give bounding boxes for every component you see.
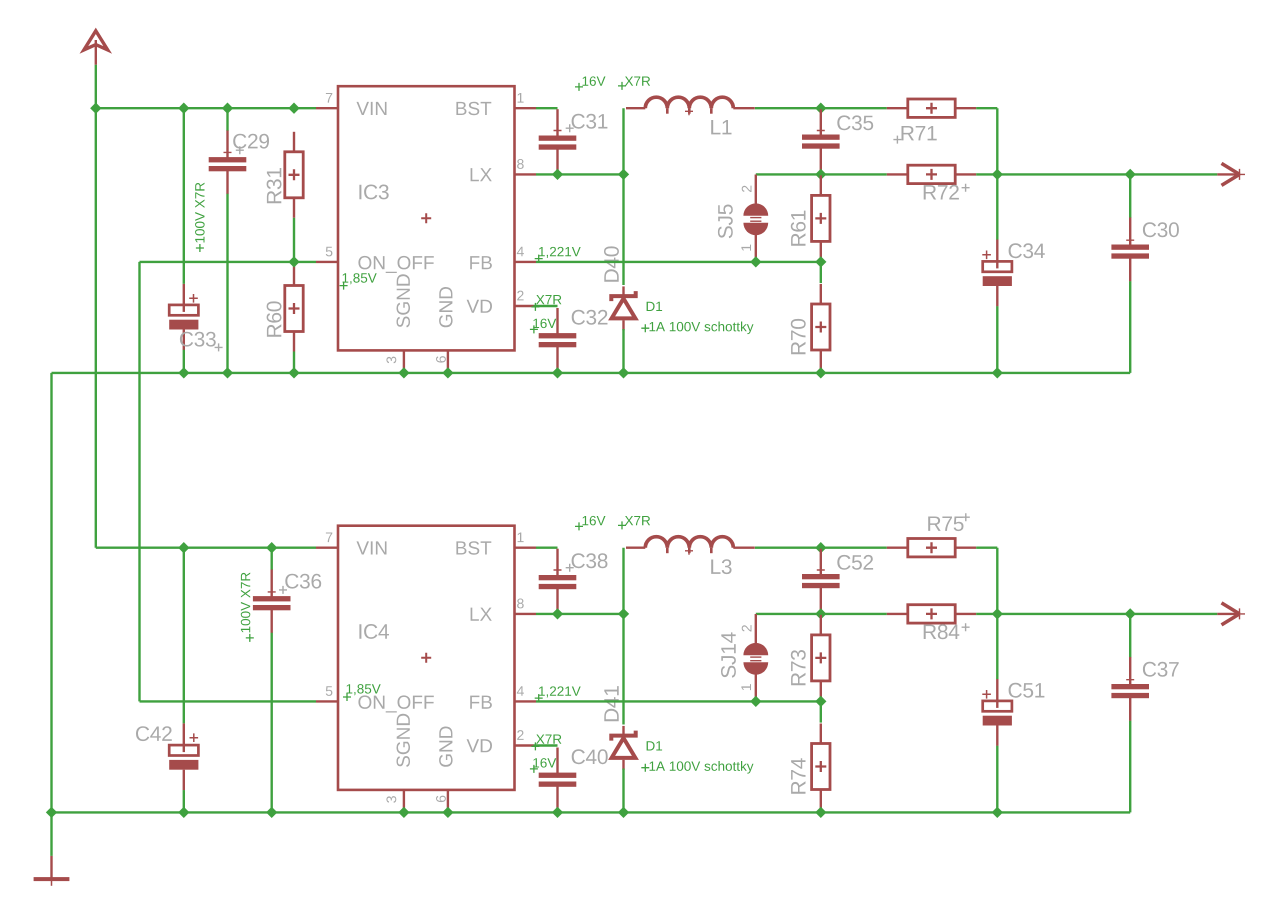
FB value anchor	[535, 255, 543, 263]
junction LX-C31	[552, 169, 563, 180]
net name D41	[604, 686, 618, 721]
resistor R72	[887, 165, 976, 183]
C32 name label	[572, 310, 608, 325]
IC3 name label	[359, 185, 388, 200]
wire ground rail	[52, 372, 1131, 374]
output arrow head	[1222, 163, 1240, 185]
R84 name label	[924, 624, 960, 639]
C32 value X7R	[536, 295, 561, 304]
pin 1 BST stub	[515, 547, 537, 549]
wire R71 out down	[996, 548, 998, 614]
wire output run	[976, 613, 1217, 615]
pin name FB	[470, 696, 492, 709]
wire R31 bottom	[293, 218, 295, 262]
junction out-R71	[992, 608, 1003, 619]
net name D40	[604, 246, 619, 281]
pin name VD	[467, 739, 492, 752]
SJ5 pin 1 label	[741, 245, 751, 251]
wire out to C34	[996, 614, 998, 679]
pin number 7	[326, 93, 332, 103]
C32 value X7R anchor	[531, 303, 539, 311]
pin 4 FB stub	[515, 261, 537, 263]
inductor L3	[626, 537, 755, 554]
junction rail C32	[552, 367, 563, 378]
wire FB	[536, 700, 821, 702]
output arrow stub	[1217, 173, 1239, 175]
capacitor C42	[169, 723, 198, 790]
resistor R74	[812, 724, 830, 810]
pin 3 SGND stub	[403, 790, 405, 813]
C29 value anchor	[196, 244, 204, 252]
C38 origin cross	[554, 566, 562, 574]
wire ON_OFF bottom	[140, 700, 317, 702]
SJ5 name label	[718, 205, 733, 239]
pin 6 GND stub	[447, 790, 449, 813]
diode value 1A 100V schottky	[650, 761, 754, 774]
junction rail pin6	[442, 367, 453, 378]
junction rail pin3	[398, 807, 409, 818]
wire to ground symbol	[50, 812, 52, 856]
junction Lout-C35	[815, 103, 826, 114]
C29 name label	[233, 134, 269, 149]
junction VIN-C29	[222, 103, 233, 114]
wire C35 to R72	[821, 173, 887, 175]
pin name LX	[471, 168, 492, 181]
diode value 1A 100V schottky	[650, 322, 754, 335]
power symbol VCC arrow	[84, 31, 108, 50]
wire C30 to gnd	[1129, 281, 1131, 373]
R84 name anchor	[962, 623, 970, 631]
wire VCC down	[95, 65, 97, 108]
C38 value 16V	[583, 516, 606, 526]
pin number 2	[517, 291, 523, 301]
C33 name label	[180, 332, 216, 347]
R74 name label	[791, 758, 805, 794]
C40 name label	[572, 749, 608, 764]
C29 origin cross	[224, 148, 232, 156]
C38 name anchor cross	[566, 564, 574, 572]
C30 origin cross	[1126, 236, 1134, 244]
junction VCC-VIN	[90, 103, 101, 114]
pin number 6	[436, 356, 446, 363]
ground symbol stem	[50, 856, 52, 878]
wire VIN rail	[96, 107, 316, 109]
wire FB to R70	[820, 701, 822, 722]
pin 3 SGND stub	[403, 350, 405, 373]
junction LX-D40	[618, 608, 629, 619]
ON_OFF value 1,85V	[343, 273, 377, 284]
C51 plus sign	[982, 690, 991, 699]
C35 name label	[837, 115, 873, 130]
C30 name label	[1143, 222, 1179, 237]
C52 name label	[837, 555, 873, 570]
pin name VIN	[357, 541, 387, 554]
C33 name anchor	[215, 343, 223, 351]
pin 2 VD stub	[515, 305, 534, 307]
C32 value 16V	[533, 319, 556, 329]
wire R70 to gnd	[820, 370, 822, 373]
pin name BST	[456, 541, 491, 555]
resistor R71	[887, 99, 976, 117]
C37 origin cross	[1126, 676, 1134, 684]
output arrow head	[1222, 603, 1240, 625]
pin 6 GND stub	[447, 350, 449, 373]
C31 name anchor cross	[566, 124, 574, 132]
resistor R73	[812, 615, 830, 701]
wire C33 to gnd	[183, 350, 185, 373]
capacitor C52	[802, 549, 840, 614]
junction LX-D40	[618, 169, 629, 180]
diode D1 (D41)	[611, 726, 635, 770]
C42 plus sign	[190, 733, 199, 742]
junction rail R74	[815, 807, 826, 818]
pin number 4	[517, 686, 524, 696]
wire C29 vertical top	[226, 108, 228, 131]
FB value anchor	[535, 694, 543, 702]
pin number 6	[436, 796, 446, 803]
C38 name label	[572, 553, 608, 568]
wire R71 out down	[996, 108, 998, 174]
pin number 5	[326, 686, 333, 696]
pin 5 ON_OFF stub	[316, 700, 338, 702]
wire out to C30	[1129, 174, 1131, 218]
solder jumper SJ14	[743, 614, 768, 701]
junction rail C33	[178, 367, 189, 378]
wire LX	[536, 613, 624, 615]
C40 value X7R	[536, 735, 561, 744]
capacitor C36	[253, 570, 291, 634]
resistor R60	[285, 266, 303, 352]
wire ON_OFF left	[140, 261, 317, 263]
pin 8 LX stub	[515, 613, 537, 615]
capacitor C35	[802, 109, 840, 174]
capacitor C32	[539, 308, 577, 373]
pin number 8	[517, 159, 524, 169]
wire C42 vertical top	[183, 548, 185, 724]
pin 5 ON_OFF stub	[316, 261, 338, 263]
pin name GND	[439, 287, 453, 327]
capacitor C33	[169, 284, 198, 350]
L1 name label	[711, 120, 731, 134]
C38 value X7R	[625, 516, 650, 525]
pin number 2	[517, 730, 523, 740]
ON_OFF value 1,85V	[347, 684, 381, 695]
C32 value 16V anchor	[530, 325, 538, 333]
pin name FB	[470, 256, 492, 269]
capacitor C30	[1111, 218, 1149, 282]
wire switch node down	[622, 174, 624, 285]
junction VIN-C33	[178, 103, 189, 114]
C36 value anchor	[246, 634, 254, 642]
R75 name label	[928, 517, 963, 532]
wire FB	[536, 261, 821, 263]
pin name BST	[456, 102, 491, 116]
pin name LX	[471, 608, 492, 621]
wire out to C30	[1129, 614, 1131, 658]
junction FB-R61	[815, 256, 826, 267]
junction out-R71	[992, 169, 1003, 180]
capacitor C38	[539, 549, 577, 614]
capacitor C34	[983, 239, 1012, 306]
wire BST to cap	[536, 547, 558, 549]
C52 origin cross	[817, 566, 825, 574]
junction rail C34	[992, 367, 1003, 378]
VCC pin stem	[95, 40, 97, 65]
ground symbol origin tick	[51, 881, 53, 886]
R60 name label	[267, 301, 282, 336]
wire diode anode to gnd	[622, 329, 624, 373]
junction Lout-C35	[815, 542, 826, 553]
C31 origin cross	[554, 127, 562, 135]
SJ5 pin 2 label	[742, 186, 752, 192]
R71 name anchor	[893, 136, 901, 144]
pin 7 VIN stub	[316, 547, 338, 549]
C38 value 16V anchor	[575, 522, 583, 530]
junction VIN2-C42	[178, 542, 189, 553]
junction VIN-R31	[288, 103, 299, 114]
junction out-C30	[1125, 169, 1136, 180]
C31 name label	[572, 114, 608, 129]
SJ14 pin 1 label	[741, 684, 751, 690]
C51 name label	[1009, 683, 1045, 698]
wire VD to cap	[534, 305, 558, 307]
C29 value 100V X7R	[195, 183, 205, 243]
pin 8 LX stub	[515, 173, 537, 175]
pin 2 VD stub	[515, 744, 534, 746]
junction FB-SJ	[750, 696, 761, 707]
wire C30 to gnd	[1129, 721, 1131, 813]
wire R60 to gnd	[293, 352, 295, 373]
wire BST to cap	[536, 107, 558, 109]
C31 value X7R anchor	[618, 82, 626, 90]
wire C29 to gnd	[226, 194, 228, 373]
resistor R31	[285, 132, 303, 218]
wire out to C34	[996, 174, 998, 239]
pin number 1	[518, 93, 524, 103]
IC4 origin cross	[421, 653, 431, 663]
C31 value 16V	[583, 76, 606, 86]
SJ14 pin 2 label	[742, 625, 752, 631]
junction rail D40	[618, 367, 629, 378]
junction rail pin6	[442, 807, 453, 818]
resistor R75	[887, 539, 976, 557]
resistor R61	[812, 175, 830, 261]
wire ON_OFF vertical link	[138, 262, 140, 702]
capacitor C40	[539, 748, 577, 813]
op-amp-ic IC4 box	[338, 526, 515, 790]
SJ14 name label	[721, 632, 736, 677]
resistor R70	[812, 284, 830, 370]
pin name SGND	[397, 274, 411, 327]
wire R71 out corner	[976, 547, 997, 549]
pin name SGND	[397, 714, 411, 767]
wire C34 to gnd	[996, 306, 998, 373]
IC4 name label	[359, 624, 389, 639]
pin number 3	[386, 796, 396, 803]
C40 value 16V anchor	[530, 765, 538, 773]
pin number 3	[386, 357, 396, 364]
R31 name label	[267, 168, 282, 203]
output arrow stub	[1217, 613, 1239, 615]
R61 name label	[791, 211, 806, 246]
pin name ON_OFF	[358, 256, 433, 273]
pin name ON_OFF	[358, 695, 433, 712]
wire VD to cap	[534, 744, 558, 746]
solder jumper SJ5	[743, 175, 768, 262]
C37 name label	[1143, 662, 1179, 677]
junction rail pin3	[398, 367, 409, 378]
pin 7 VIN stub	[316, 107, 338, 109]
pin number 1	[518, 533, 524, 543]
C34 plus sign	[982, 251, 991, 260]
junction rail R70	[815, 367, 826, 378]
wire C36 vertical top	[271, 548, 273, 570]
wire VIN rail	[96, 547, 316, 549]
FB value 1,221V	[539, 686, 581, 697]
pin number 4	[517, 247, 524, 257]
junction rail R60	[288, 367, 299, 378]
ON_OFF value anchor	[343, 693, 351, 701]
R73 name label	[791, 650, 806, 685]
C31 value X7R	[625, 77, 650, 86]
wire gnd link vertical	[50, 373, 52, 813]
junction FB-R61	[815, 696, 826, 707]
capacitor C29	[209, 131, 247, 195]
C42 name label	[136, 726, 172, 741]
wire C36 to gnd	[271, 633, 273, 813]
junction FB-SJ	[750, 256, 761, 267]
junction LX-C31	[552, 608, 563, 619]
C33 plus sign	[189, 294, 198, 303]
C40 value X7R anchor	[531, 742, 539, 750]
diode value anchor	[641, 764, 649, 772]
wire switch node down	[622, 614, 624, 725]
C36 origin cross	[268, 588, 276, 596]
pin number 8	[517, 599, 524, 609]
wire inductor out	[755, 107, 821, 109]
junction FB-R31R60	[288, 256, 299, 267]
R72 name anchor	[962, 184, 970, 192]
wire R70 to gnd	[820, 810, 822, 813]
diode D1 (D40)	[611, 286, 635, 330]
junction out-C35	[815, 169, 826, 180]
capacitor C31	[539, 109, 577, 174]
R75 name anchor	[962, 513, 970, 521]
diode D1 name	[647, 302, 663, 311]
wire output run	[976, 173, 1217, 175]
wire switch node up	[622, 108, 624, 174]
wire ground rail	[52, 811, 1131, 813]
wire switch node up	[622, 548, 624, 614]
junction rail C29	[222, 367, 233, 378]
diode D1 name	[647, 741, 663, 750]
junction rail C36	[266, 807, 277, 818]
junction rail gndlink	[46, 807, 57, 818]
junction out-C35	[815, 608, 826, 619]
C34 name label	[1009, 243, 1045, 258]
pin name GND	[439, 727, 453, 767]
wire C34 to gnd	[996, 746, 998, 813]
junction rail C42	[178, 807, 189, 818]
C36 name anchor	[279, 586, 287, 594]
diode value anchor	[641, 324, 649, 332]
wire inductor out	[755, 547, 821, 549]
output arrow origin cross	[1234, 608, 1245, 619]
capacitor C37	[1111, 657, 1149, 721]
C38 value X7R anchor	[618, 521, 626, 529]
wire C33 vertical top	[183, 108, 185, 284]
IC3 origin cross	[421, 213, 431, 223]
ground symbol bar	[34, 877, 70, 881]
C29 name anchor	[236, 146, 244, 154]
L3 name label	[711, 559, 731, 574]
wire SJ to C35 bottom	[756, 613, 821, 615]
pin name VIN	[357, 102, 387, 115]
resistor R84	[887, 605, 976, 623]
pin 4 FB stub	[515, 700, 537, 702]
junction out-C30	[1125, 608, 1136, 619]
op-amp-ic IC3 box	[338, 86, 515, 350]
wire out node to R	[821, 107, 887, 109]
wire LX	[536, 173, 624, 175]
FB value 1,221V	[539, 247, 581, 258]
capacitor C51	[983, 679, 1012, 746]
R71 name label	[902, 126, 937, 140]
pin number 5	[326, 247, 333, 257]
C36 name label	[285, 574, 321, 589]
junction rail C51	[992, 807, 1003, 818]
L3 origin cross	[685, 547, 693, 555]
wire SJ to C35 bottom	[756, 173, 821, 175]
pin number 7	[326, 533, 332, 543]
wire R71 out corner	[976, 107, 997, 109]
R70 name label	[791, 319, 806, 354]
inductor L1	[626, 97, 755, 113]
wire out node to R	[821, 547, 887, 549]
wire C42 to gnd	[183, 790, 185, 812]
wire FB to R70	[820, 262, 822, 283]
junction rail D41	[618, 807, 629, 818]
C36 value 100V X7R	[241, 573, 251, 633]
R72 name label	[924, 185, 959, 200]
L1 origin cross	[685, 107, 693, 115]
ON_OFF value anchor	[340, 282, 348, 290]
wire C35 to R72	[821, 613, 887, 615]
output arrow origin cross	[1234, 169, 1245, 180]
junction VIN2-C36	[266, 542, 277, 553]
C40 value 16V	[533, 758, 556, 768]
C35 origin cross	[817, 127, 825, 135]
pin 1 BST stub	[515, 107, 537, 109]
junction rail C40	[552, 807, 563, 818]
wire diode anode to gnd	[622, 769, 624, 813]
pin name VD	[467, 300, 492, 313]
C31 value 16V anchor	[575, 83, 583, 91]
wire VCC link down	[95, 108, 97, 548]
